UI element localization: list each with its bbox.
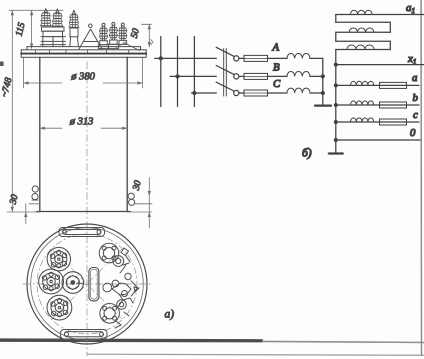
LV coil c xyxy=(351,118,374,122)
dimension ø380 xyxy=(24,58,143,89)
fuse A xyxy=(244,55,268,61)
x1 line xyxy=(336,64,424,66)
svg-text:A: A xyxy=(272,42,280,54)
switch blade A xyxy=(216,47,234,56)
ground (secondary) xyxy=(329,152,343,154)
svg-text:a: a xyxy=(412,72,417,84)
valve assembly right xyxy=(103,265,139,307)
small bushing 2 xyxy=(108,22,118,48)
node star-B xyxy=(321,74,325,78)
svg-text:0: 0 xyxy=(410,127,416,139)
center cap xyxy=(62,272,84,294)
node b xyxy=(334,103,338,107)
lifting bracket (triangle) xyxy=(79,24,102,49)
svg-text:30: 30 xyxy=(130,179,143,192)
lid flange xyxy=(21,50,146,58)
svg-text:ø 313: ø 313 xyxy=(69,117,94,128)
left dimension 30 xyxy=(24,204,40,224)
wire hinge B to fuse B xyxy=(239,75,244,77)
wire fuse A to coil A xyxy=(268,57,288,59)
svg-text:B: B xyxy=(273,62,280,74)
HV section 1 wire (a1 line) xyxy=(336,14,424,16)
svg-text:b: b xyxy=(413,92,419,104)
wire coil B to star xyxy=(310,75,323,77)
svg-text:x1: x1 xyxy=(407,53,417,66)
reactor coil B xyxy=(287,72,310,77)
bottom dark page-fold bar xyxy=(0,338,263,342)
neutral row 0 wire xyxy=(336,139,420,141)
top handle bracket xyxy=(59,228,105,237)
horizontal centerline xyxy=(23,283,151,285)
wire fuse B to coil B xyxy=(268,75,288,77)
switch blade C xyxy=(216,82,234,91)
svg-text:ø 380: ø 380 xyxy=(70,72,95,83)
stray pencil mark xyxy=(151,40,154,45)
LV coil a xyxy=(351,81,374,85)
HV coil 1 xyxy=(351,10,373,14)
phase B tap wire xyxy=(170,75,216,77)
link row3-row4 left xyxy=(335,32,337,41)
switch linkage bar xyxy=(224,49,227,97)
node 0 xyxy=(334,138,338,142)
LV row a wire xyxy=(336,84,419,86)
bushing top 2 (left) xyxy=(39,269,64,294)
svg-text:б): б) xyxy=(302,148,312,160)
reactor coil A xyxy=(287,54,310,59)
node bus3-C xyxy=(192,91,196,95)
wire hinge C to fuse C xyxy=(239,92,244,94)
bottom extension lines xyxy=(7,211,152,213)
HV coil 3 xyxy=(347,45,374,50)
node bus1-A xyxy=(159,56,163,60)
bushing pair pedestal xyxy=(40,27,66,46)
wire hinge A to fuse A xyxy=(239,57,244,59)
small bushing 1 xyxy=(98,23,108,48)
node star-C xyxy=(321,91,325,95)
reactor coil C xyxy=(287,88,310,93)
left wall stud xyxy=(32,186,39,200)
switch blade B xyxy=(216,66,234,75)
switch hinge A xyxy=(234,56,239,61)
node a xyxy=(334,83,338,87)
dimension 50 xyxy=(142,24,152,47)
switch hinge B xyxy=(234,74,239,79)
svg-text:50: 50 xyxy=(129,27,142,39)
right dimension 30 xyxy=(135,178,152,229)
bus line 3 xyxy=(193,37,195,107)
tank bottom xyxy=(37,211,131,213)
right wall stud xyxy=(128,193,135,205)
svg-text:c: c xyxy=(413,109,418,121)
secondary bus xyxy=(335,65,337,153)
star point down-lead xyxy=(322,58,324,104)
outer rim xyxy=(27,224,147,344)
row4 connector wire xyxy=(336,40,391,42)
LV row b wire xyxy=(336,104,419,106)
right page-edge vertical line xyxy=(420,0,422,355)
bushing top 3 (lower-left) xyxy=(47,295,72,320)
switch hinge C xyxy=(234,90,239,95)
wire coil C to star xyxy=(310,92,323,94)
svg-text:a): a) xyxy=(165,309,175,321)
fuse b xyxy=(380,102,407,108)
small dark tick at left edge xyxy=(0,62,4,67)
valve assembly upper-right xyxy=(99,243,130,266)
link row1-row2 left xyxy=(335,15,337,23)
link row2-row3 right xyxy=(389,22,391,32)
valve assembly lower-right xyxy=(100,300,129,328)
phase C tap wire xyxy=(192,92,217,94)
node c xyxy=(334,120,338,124)
fuse c xyxy=(380,119,407,125)
link row5-x1 left xyxy=(335,50,337,65)
top extension line xyxy=(9,9,63,11)
support strut left xyxy=(113,42,127,50)
wire coil A to star xyxy=(310,57,323,59)
HV section 3 wire xyxy=(336,49,391,51)
bushing top 1 (upper-left) xyxy=(47,247,70,270)
fuse a xyxy=(380,82,407,88)
LV coil b xyxy=(351,101,374,105)
support strut right xyxy=(124,43,140,51)
diagonal centerline 45 xyxy=(52,249,122,319)
ground (star point) xyxy=(315,104,331,106)
bottom-right page edge line xyxy=(87,354,424,356)
dimension ~748 xyxy=(11,10,14,211)
centerline (vertical axis) xyxy=(86,62,88,356)
bus line 1 xyxy=(160,37,162,107)
inner rim xyxy=(31,228,144,341)
bottom thin grey continuation line xyxy=(262,341,424,344)
small bushing 3 xyxy=(119,23,127,44)
tank right wall xyxy=(126,57,128,211)
svg-text:a1: a1 xyxy=(406,2,415,15)
tall bushing 1 xyxy=(41,9,52,26)
dimension ø313 xyxy=(40,127,127,130)
diagonal centerline 135 xyxy=(52,249,122,319)
bus line 2 xyxy=(177,37,179,107)
oil slot xyxy=(89,268,99,301)
node x1 xyxy=(334,63,338,67)
tall bushing 3 xyxy=(69,11,79,47)
fuse C xyxy=(244,90,268,96)
svg-text:115: 115 xyxy=(14,21,28,37)
LV row c wire xyxy=(336,121,419,123)
fuse B xyxy=(244,73,268,79)
wire fuse C to coil C xyxy=(268,92,288,94)
lid upper plate xyxy=(27,47,141,50)
node bus2-B xyxy=(175,74,179,78)
row2 connector wire xyxy=(336,21,391,23)
svg-text:C: C xyxy=(273,78,281,90)
bottom handle bracket xyxy=(61,330,108,340)
svg-text:30: 30 xyxy=(7,193,20,206)
phase A tap wire xyxy=(155,57,217,59)
tall bushing 2 xyxy=(52,9,63,26)
tank left wall xyxy=(39,57,41,211)
HV coil 2 xyxy=(349,28,374,32)
dimension 115 xyxy=(30,10,33,48)
HV section 2 wire xyxy=(336,31,391,33)
bolt circle (dash-dot) xyxy=(37,234,137,334)
link row4-row5 right xyxy=(389,41,391,49)
